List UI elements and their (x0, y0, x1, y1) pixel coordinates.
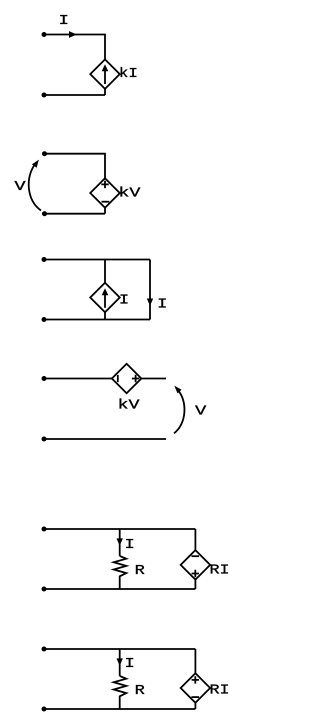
node top-left terminal (circuit 4) (42, 376, 47, 381)
svg-text:kV: kV (118, 186, 141, 202)
node bottom-left terminal (circuit 2) (42, 211, 47, 216)
wire bottom (circuit 3) (44, 319, 150, 321)
dependent voltage source kV (diamond) (90, 178, 120, 208)
wire right branch top (circuit 5) (194, 529, 196, 550)
wire top-right (circuit 4) (141, 378, 166, 380)
plus sign of RI source (circuit 6) (192, 676, 199, 683)
node top-left terminal (circuit 2) (42, 151, 47, 156)
controlling voltage arrow V (curved arc) (29, 164, 41, 211)
svg-text:V: V (195, 404, 207, 420)
current source I (diamond) (90, 283, 120, 313)
wire bottom (circuit 5) (44, 588, 195, 590)
svg-text:I: I (157, 296, 167, 312)
wire bottom (circuit 6) (44, 708, 195, 710)
dependent voltage source RI (diamond, circuit 6) (181, 673, 211, 703)
wire middle stub top (circuit 3) (104, 260, 106, 283)
node top-left terminal (circuit 1) (42, 32, 47, 37)
svg-text:R: R (135, 563, 146, 579)
minus sign of kV source (102, 201, 110, 203)
wire middle branch top (circuit 6) (119, 649, 121, 676)
node top-left terminal (circuit 3) (42, 257, 47, 262)
plus sign of kV source (101, 181, 108, 188)
wire top (circuit 5) (44, 528, 195, 530)
svg-text:I: I (125, 537, 135, 553)
output voltage arrow V (curved arc) (174, 390, 184, 433)
wire bottom stub (circuit 1) (104, 89, 106, 95)
resistor R (114, 556, 127, 589)
svg-text:I: I (125, 656, 135, 672)
node bottom-left terminal (circuit 4) (42, 437, 47, 442)
arrow inside source I (104, 294, 106, 308)
plus sign of series kV source (132, 375, 139, 382)
node top-left terminal (circuit 5) (42, 527, 47, 532)
node bottom-left terminal (circuit 6) (42, 707, 47, 712)
arrow inside source kI (104, 71, 106, 85)
wire right branch bottom stub (circuit 5) (194, 580, 196, 589)
wire bottom (circuit 4) (44, 438, 166, 440)
branch current arrow I (circuit 6) (117, 658, 123, 665)
wire top-left (circuit 4) (44, 378, 112, 380)
wire right branch (circuit 3) (149, 260, 151, 320)
wire bottom stub (circuit 2) (104, 208, 106, 214)
svg-text:kI: kI (119, 66, 138, 82)
node bottom-left terminal (circuit 5) (42, 587, 47, 592)
minus sign of series kV source (117, 375, 119, 382)
current arrow I on wire (69, 31, 77, 38)
svg-text:V: V (14, 179, 26, 195)
plus sign of RI source (circuit 5) (192, 570, 199, 577)
svg-text:R: R (135, 683, 146, 699)
wire middle stub bottom (circuit 3) (104, 312, 106, 319)
svg-text:I: I (119, 292, 129, 308)
svg-text:I: I (59, 13, 69, 29)
wire top (circuit 2) (45, 154, 106, 179)
minus sign of RI source (circuit 6) (192, 696, 200, 698)
svg-text:RI: RI (210, 562, 230, 578)
wire top (circuit 3) (44, 259, 150, 261)
wire right branch bottom stub (circuit 6) (194, 703, 196, 709)
svg-text:RI: RI (210, 682, 230, 698)
node bottom-left terminal (circuit 1) (42, 93, 47, 98)
resistor R (circuit 6) (114, 676, 127, 709)
node top-left terminal (circuit 6) (42, 647, 47, 652)
dependent voltage source RI (diamond, circuit 5) (181, 550, 211, 580)
wire middle branch top (circuit 5) (119, 529, 121, 556)
wire top (circuit 1) (44, 35, 105, 60)
minus sign of RI source (circuit 5) (192, 555, 200, 557)
dependent voltage source kV (diamond, series) (112, 364, 142, 394)
svg-text:kV: kV (118, 398, 141, 414)
wire top (circuit 6) (44, 648, 195, 650)
wire right branch top (circuit 6) (194, 649, 196, 673)
node bottom-left terminal (circuit 3) (42, 317, 47, 322)
wire bottom (circuit 2) (45, 213, 106, 215)
wire bottom (circuit 1) (44, 94, 105, 96)
branch current arrow I (right branch) (147, 299, 153, 306)
dependent current source kI (diamond) (90, 59, 120, 89)
branch current arrow I (circuit 5) (117, 538, 123, 545)
